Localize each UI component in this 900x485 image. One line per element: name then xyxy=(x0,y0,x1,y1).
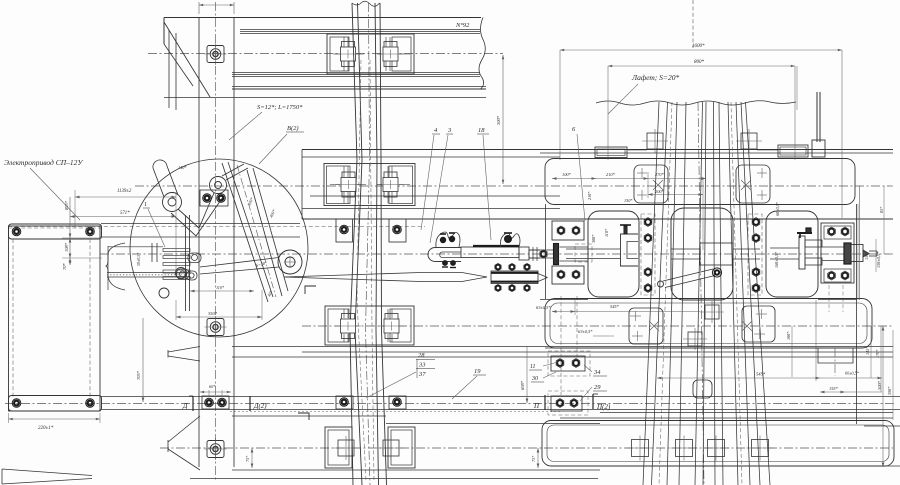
left foundation frame xyxy=(9,226,101,411)
band5 rounded right section xyxy=(542,421,894,467)
hex bolt coupling 4 xyxy=(495,284,501,291)
rail V1 outer left xyxy=(350,3,357,485)
clip right on band2 plate xyxy=(378,172,404,197)
hex bolt coupling 1 xyxy=(495,263,501,270)
band3 rail lines xyxy=(232,346,893,348)
square V2 a xyxy=(700,301,724,323)
rounded plate right in frame xyxy=(736,165,770,203)
band5 top line left xyxy=(232,415,386,417)
lafet frame left vertical xyxy=(545,204,547,299)
hex bolt LP3 xyxy=(557,270,565,279)
rail V1 outer right xyxy=(380,3,387,485)
square V2 b xyxy=(683,328,707,350)
hex bolt RP3 xyxy=(828,271,836,280)
clip left on band1 plate xyxy=(335,42,361,67)
dashed box ground bolts upper xyxy=(548,351,590,376)
right threaded rod and nut xyxy=(822,243,877,264)
dim 75 right xyxy=(537,448,539,468)
bolt clamp D right xyxy=(218,398,227,407)
bolt on sleeper S1 top xyxy=(205,43,227,65)
diagonal link rod xyxy=(663,269,713,281)
svg-text:75*: 75* xyxy=(531,455,536,462)
lafet top frame xyxy=(545,159,855,205)
clip stems band3 xyxy=(343,309,345,318)
frame connector lines right xyxy=(818,299,857,301)
bolt strip left xyxy=(641,214,655,295)
dim 220 xyxy=(8,413,10,423)
upper rod shank xyxy=(101,223,300,225)
hex bolt coupling 3 xyxy=(524,263,530,270)
rail band1 break line xyxy=(479,18,485,90)
svg-text:130*: 130* xyxy=(864,251,869,260)
band2 right inner line xyxy=(540,152,893,154)
svg-text:300*: 300* xyxy=(591,234,596,243)
bolt strip right xyxy=(748,214,762,295)
lobed bracket right xyxy=(501,233,521,247)
svg-text:200*: 200* xyxy=(655,189,665,194)
main bar with thick edge xyxy=(461,246,540,260)
svg-text:S=12*; L=1750*: S=12*; L=1750* xyxy=(257,104,303,111)
housing H2 xyxy=(766,211,818,297)
guard rail square on V2 xyxy=(693,380,712,398)
bolt sleeper clip left xyxy=(203,194,212,203)
svg-text:85*: 85* xyxy=(879,206,884,213)
clip square right band b xyxy=(671,436,698,461)
lobed bracket left xyxy=(436,232,460,247)
crank lever xyxy=(153,160,248,236)
hex bolt ground b xyxy=(572,359,580,368)
bottom left corner wedge xyxy=(2,469,92,476)
rod clamp plates D xyxy=(202,396,229,409)
hex bolt ground c xyxy=(556,399,564,408)
dim 350 in circle xyxy=(176,316,262,318)
bolt lower rod right xyxy=(86,399,95,408)
rail band1 head line xyxy=(240,29,480,31)
svg-text:545*: 545* xyxy=(756,372,766,377)
clevis in H2 xyxy=(770,236,822,269)
anchor plate left lower xyxy=(552,266,584,284)
extension line 345 dim xyxy=(815,300,817,381)
svg-text:30: 30 xyxy=(531,376,538,382)
svg-text:210*: 210* xyxy=(587,191,592,200)
shaft to H1 xyxy=(560,246,589,248)
pad left on frame xyxy=(595,147,627,158)
svg-text:100*: 100* xyxy=(562,172,572,177)
dim 545 bottom xyxy=(657,377,882,379)
dim 800 xyxy=(607,66,609,160)
X mark frame left xyxy=(653,180,663,190)
link head a xyxy=(188,253,201,263)
svg-text:34: 34 xyxy=(593,369,601,376)
band3 left taper wedge xyxy=(168,347,200,353)
band5 bottom line xyxy=(232,469,600,471)
hex bolt LP4 xyxy=(572,270,580,279)
hex bolt ground d xyxy=(570,399,578,408)
svg-text:Лафет; S=20*: Лафет; S=20* xyxy=(631,73,679,82)
axis rail band 2 xyxy=(135,185,893,187)
hex bolt strip1 d xyxy=(644,284,652,293)
clip left on band2 plate xyxy=(336,172,362,197)
dim 110 in circle xyxy=(190,290,254,292)
dashed slide zone xyxy=(575,244,592,262)
axis sleeper S1 xyxy=(215,2,217,482)
extension verticals right assembly xyxy=(702,178,704,250)
dim 100 above sleeper xyxy=(198,2,200,14)
svg-text:140*: 140* xyxy=(178,165,187,170)
clip with bolts on sleeper xyxy=(200,190,228,206)
housing middle M xyxy=(671,208,733,300)
dim 75 left xyxy=(251,448,253,468)
svg-text:220±1*: 220±1* xyxy=(38,426,54,431)
lower rod shank xyxy=(101,396,900,398)
hex bolt ground a xyxy=(556,359,564,368)
bolt on sleeper S1 bottom xyxy=(205,438,227,460)
svg-text:145*: 145* xyxy=(865,346,870,355)
bolt upper rod left xyxy=(12,227,21,236)
pad right on frame xyxy=(778,145,808,157)
switch diagonal centerline xyxy=(237,165,276,297)
rail band2 head line xyxy=(302,156,560,158)
lafet lower frame band xyxy=(545,299,872,349)
svg-text:800*: 800* xyxy=(694,60,705,65)
baseplate on band2 xyxy=(324,164,415,206)
svg-text:545*: 545* xyxy=(610,304,620,309)
X marks band3 xyxy=(649,321,659,331)
svg-text:170*: 170* xyxy=(875,349,880,358)
upper long rod plate xyxy=(9,224,102,239)
rails V2 diverging track xyxy=(643,102,770,485)
hex bolt coupling 5 xyxy=(509,284,515,291)
corner mark lower xyxy=(298,413,309,420)
hex bolt strip1 a xyxy=(644,218,652,227)
rod in H1 xyxy=(566,248,620,250)
lafet frame right vertical xyxy=(856,204,858,424)
svg-text:100*: 100* xyxy=(786,331,791,340)
clip square right band c xyxy=(703,436,730,461)
band5 baseplate right xyxy=(388,427,415,468)
left threaded rod xyxy=(529,249,554,251)
axis upper rod dashed xyxy=(8,226,425,228)
svg-text:19: 19 xyxy=(474,368,481,375)
anchor plate right xyxy=(821,223,854,283)
rail band1 lower head line xyxy=(232,72,480,74)
hex bolt RP2 xyxy=(841,227,849,236)
hex nut on left rod xyxy=(540,250,547,258)
svg-text:1139±2: 1139±2 xyxy=(117,189,132,194)
anchor bolts below left xyxy=(560,296,562,395)
comb fork bars xyxy=(163,249,190,252)
clip left on band3 plate xyxy=(335,314,361,339)
hex bolt LP2 xyxy=(572,226,580,235)
housing H1 xyxy=(588,211,639,297)
lower link head xyxy=(176,268,187,279)
square pad right xyxy=(736,129,762,153)
clip right on band3 plate xyxy=(379,314,405,339)
sleeper S1 right edge xyxy=(233,18,235,467)
hex bolt LP1 xyxy=(557,226,565,235)
svg-text:1: 1 xyxy=(144,202,147,208)
rail band2 top edge xyxy=(302,149,893,151)
link head b xyxy=(177,269,190,279)
left rod disc xyxy=(554,244,559,265)
rail V1 inner right xyxy=(375,3,379,485)
band5 baseplate left xyxy=(325,427,352,468)
rail band1 top edge xyxy=(164,17,481,19)
rail band2 left end xyxy=(301,150,303,220)
bolt upper rod right xyxy=(86,227,95,236)
detail circle B xyxy=(130,159,308,337)
svg-text:11: 11 xyxy=(530,364,536,370)
svg-text:500*: 500* xyxy=(496,115,501,125)
svg-text:28: 28 xyxy=(418,352,425,359)
svg-text:29: 29 xyxy=(594,384,601,391)
band5 right top lines xyxy=(600,412,893,414)
svg-text:155*: 155* xyxy=(829,386,839,391)
svg-text:210*: 210* xyxy=(606,172,616,177)
frame connector lines left xyxy=(540,299,588,301)
dim 500 vertical xyxy=(502,55,504,184)
rod coupling with bolts xyxy=(491,271,538,284)
T-bolt above clamp H1 xyxy=(620,225,631,234)
timber bottom line xyxy=(164,97,486,99)
dims lafet row xyxy=(552,178,706,180)
pads on band3 right left pad xyxy=(629,308,663,344)
rod clamp plates at V1 lower xyxy=(336,396,353,409)
bolt clamp V1R xyxy=(393,398,402,407)
hex bolt strip2 d xyxy=(752,284,760,293)
pads on band3 right right pad xyxy=(742,306,775,342)
dim 1600 xyxy=(559,50,561,160)
hex bolt strip1 b xyxy=(644,234,652,243)
svg-text:18: 18 xyxy=(478,127,485,134)
svg-text:698*: 698* xyxy=(520,380,525,390)
bolt sleeper clip right xyxy=(217,194,226,203)
svg-text:N°92: N°92 xyxy=(455,22,470,29)
clip square right band a xyxy=(627,436,654,461)
comb upper edge line xyxy=(108,246,163,248)
bolt clamp V1L xyxy=(340,398,349,407)
band5 top line right xyxy=(386,423,600,425)
rail V1 inner left xyxy=(355,3,362,485)
svg-text:33: 33 xyxy=(418,362,426,369)
svg-text:В(2): В(2) xyxy=(287,125,299,132)
T-bolt at lafet xyxy=(816,92,818,142)
axis main rod xyxy=(100,253,893,255)
rail band2 bottom edge xyxy=(302,218,893,220)
wavy break line lafet xyxy=(596,101,796,105)
band5 left taper xyxy=(168,416,200,442)
rail band1 bottom edge xyxy=(232,86,486,88)
band5 lines right of rounded end xyxy=(864,425,900,427)
switch diagonal rail a xyxy=(222,163,268,302)
gauge rod clips xyxy=(336,219,353,242)
square pad left xyxy=(642,129,668,153)
axis rails V1 xyxy=(366,3,371,485)
block in M xyxy=(700,243,733,265)
thin tapered rod xyxy=(284,273,487,278)
svg-text:70*: 70* xyxy=(62,263,67,271)
pad connector lines xyxy=(628,149,647,151)
plate side tick marks xyxy=(333,53,340,55)
clip stems band2 xyxy=(343,166,345,177)
throw bar bracket vertical xyxy=(185,215,187,311)
bolt gauge rod left xyxy=(340,225,349,234)
axis bottom band xyxy=(160,447,893,449)
svg-text:Д(2): Д(2) xyxy=(253,402,267,410)
svg-text:110*: 110* xyxy=(216,285,225,290)
svg-text:571*: 571* xyxy=(120,211,130,216)
hex bolt strip1 c xyxy=(644,268,652,277)
svg-text:П(2): П(2) xyxy=(596,403,611,411)
dim 100 V2 xyxy=(791,326,793,377)
rail band1 left taper xyxy=(164,18,210,111)
svg-text:895*: 895* xyxy=(64,200,69,210)
bolt on sleeper S1 middle xyxy=(205,316,227,338)
svg-text:37: 37 xyxy=(418,371,426,378)
rail V1 top break xyxy=(352,1,380,6)
svg-text:590*: 590* xyxy=(887,386,892,395)
clip square band5 left xyxy=(333,436,359,460)
hex bolt strip2 b xyxy=(752,234,760,243)
rail V1 hidden lines xyxy=(357,60,366,480)
dashed box ground bolts lower xyxy=(548,391,588,415)
serrated rack bar xyxy=(107,272,186,274)
svg-text:Электропривод СП–12У: Электропривод СП–12У xyxy=(4,158,83,167)
band5 lower edge xyxy=(190,478,598,480)
hex bolt RP1 xyxy=(828,227,836,236)
dims 145 170 xyxy=(870,326,872,378)
baseplate on band3 xyxy=(325,306,414,345)
dim 60 at D xyxy=(208,390,210,396)
rail band2 gauge line xyxy=(310,195,560,197)
svg-text:270*: 270* xyxy=(655,172,665,177)
svg-text:1600*: 1600* xyxy=(692,44,705,49)
detector lever flag xyxy=(797,228,812,238)
clip square band5 right xyxy=(378,436,404,460)
dashed verticals below RP xyxy=(828,285,830,312)
bolt gauge rod right xyxy=(393,225,402,234)
band protrusion step xyxy=(818,348,853,363)
bolt lower rod left xyxy=(12,399,21,408)
sleeper S1 left edge xyxy=(198,18,200,467)
dim 895 108 70 vertical xyxy=(69,197,71,265)
anchor plate left upper xyxy=(552,221,584,240)
svg-text:60*: 60* xyxy=(209,384,216,389)
hex bolt RP4 xyxy=(841,271,849,280)
axis rail band 3 xyxy=(302,325,893,327)
hex bolt coupling 6 xyxy=(524,284,530,291)
clip right on band1 plate xyxy=(378,42,404,67)
clip square right band d xyxy=(747,436,774,461)
bolt clamp D left xyxy=(205,398,214,407)
rounded plate left in frame xyxy=(634,165,668,203)
hex bolt coupling 2 xyxy=(509,263,515,270)
axis rail band 1 xyxy=(148,53,503,55)
curly end fitting xyxy=(106,243,125,290)
dim 500 vertical right xyxy=(882,326,884,467)
lower long rod plate xyxy=(9,396,102,412)
rail band2 lower head line xyxy=(302,208,560,210)
svg-text:110*: 110* xyxy=(604,228,609,237)
switch diagonal rail b xyxy=(247,170,282,296)
svg-text:150*: 150* xyxy=(624,198,633,203)
hex bolt strip2 a xyxy=(752,218,760,227)
U-hook clevis xyxy=(428,248,461,268)
connecting link rod xyxy=(200,250,302,274)
thin rod pointed tip xyxy=(538,274,548,278)
svg-text:705*: 705* xyxy=(136,370,141,380)
baseplate on band1 xyxy=(327,34,414,74)
corner mark upper xyxy=(305,286,316,294)
svg-text:75*: 75* xyxy=(245,455,250,462)
axis rails V2 xyxy=(698,102,704,485)
svg-text:350*: 350* xyxy=(208,311,218,316)
link head c xyxy=(187,271,198,280)
dim 705 vertical xyxy=(142,318,144,402)
hex bolt strip2 c xyxy=(752,268,760,277)
clamp in H1 xyxy=(621,234,639,266)
clip stems band1 xyxy=(343,37,345,47)
svg-text:Д: Д xyxy=(182,402,188,410)
rod between M and H2 xyxy=(733,248,760,250)
svg-text:108*: 108* xyxy=(64,242,69,252)
axis lower rod xyxy=(5,403,895,405)
svg-text:П: П xyxy=(533,402,540,410)
dim 698 vertical xyxy=(526,346,528,403)
X marks frame row xyxy=(741,180,751,190)
